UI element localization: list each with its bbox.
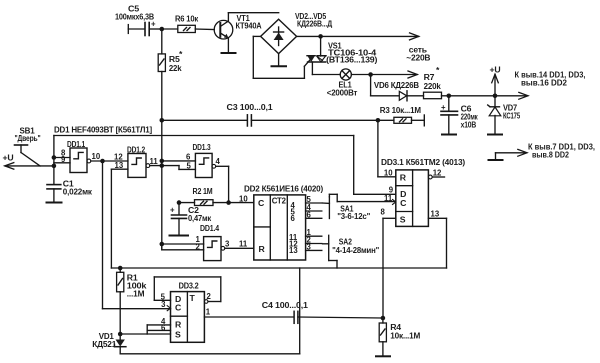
svg-text:DD3.2: DD3.2 (179, 281, 199, 291)
svg-text:(ВТ136...139): (ВТ136...139) (326, 55, 377, 65)
diode bridge VD2...VD5 (261, 11, 333, 54)
DD3.2 pin 1 output (204, 308, 293, 318)
svg-text:выв.16 DD2: выв.16 DD2 (521, 79, 568, 88)
wire: down to DD3.2 pin 3 (103, 161, 171, 309)
svg-text:DD3.1 К561ТМ2 (4013): DD3.1 К561ТМ2 (4013) (381, 157, 465, 167)
flip-flop DD3.1 (381, 157, 466, 226)
svg-text:DD1 HEF4093ВТ [К561ТЛ1]: DD1 HEF4093ВТ [К561ТЛ1] (54, 125, 152, 135)
svg-text:+: + (441, 103, 446, 112)
svg-text:220k: 220k (424, 81, 441, 91)
net label: К выв.7 DD1, DD3, выв.8 DD2 (528, 143, 595, 160)
capacitor C6 (441, 96, 478, 134)
svg-text:*: * (436, 65, 440, 75)
ground (C2) (170, 235, 189, 237)
ground (R4) (376, 355, 390, 357)
ground (VD7) (488, 134, 502, 136)
svg-text:10: 10 (384, 169, 393, 178)
node: C5/R6/R5 junction (160, 27, 165, 32)
wire DD1.1 out to DD1.2 (91, 160, 128, 162)
node: C4/R4/DD3.1-S junction (381, 316, 386, 321)
resistor R7 (424, 65, 449, 99)
capacitor C4 (262, 300, 383, 323)
gate DD1.1 (54, 139, 101, 173)
svg-text:*: * (179, 49, 183, 59)
node: R1 bottom / VD1 (118, 332, 123, 337)
capacitor C3 (162, 102, 378, 126)
wire R2 to DD2 C input (229, 202, 254, 204)
svg-text:C: C (400, 198, 407, 208)
wire: DD1.2 pin13 down to feedback line (110, 169, 112, 268)
svg-text:11: 11 (384, 194, 393, 203)
resistor R3 (378, 105, 424, 126)
svg-text:C: C (175, 303, 182, 313)
diode VD1 (92, 331, 126, 354)
svg-text:R: R (259, 244, 266, 254)
svg-text:КД226В...Д: КД226В...Д (297, 19, 333, 29)
svg-text:13: 13 (115, 161, 124, 170)
wire bridge right to mains arrow (297, 33, 419, 40)
wire DD1.3 out to R2 right (216, 166, 229, 202)
DD3.1 pin 12 output (428, 169, 444, 179)
resistor R2 (179, 186, 229, 206)
wire: bottom bus riser (120, 268, 300, 354)
gate DD1.4 (162, 223, 230, 261)
svg-text:11: 11 (239, 240, 248, 249)
svg-text:СТ2: СТ2 (272, 196, 286, 206)
triac VS1 (307, 36, 378, 74)
gate DD1.3 (186, 142, 221, 178)
svg-text:+: + (170, 206, 175, 215)
svg-text:"4-14-28мин": "4-14-28мин" (332, 245, 379, 255)
svg-text:КД521: КД521 (92, 339, 116, 349)
svg-text:+U: +U (490, 65, 501, 75)
DD2 output stubs (306, 195, 322, 251)
wire DD1.2 out to DD1.3 (150, 161, 196, 170)
capacitor C1 (47, 166, 93, 202)
svg-text:"3-6-12с": "3-6-12с" (337, 211, 370, 221)
svg-text:3: 3 (225, 240, 230, 249)
node: C3/R3/DD3.1-R junction (376, 118, 381, 123)
wire R1 node to DD3.2 R/S (120, 317, 170, 334)
svg-text:С4 100...0,1: С4 100...0,1 (262, 300, 308, 310)
svg-text:6: 6 (186, 153, 191, 162)
svg-text:8: 8 (381, 208, 386, 217)
node: +U junction (493, 94, 498, 99)
node: bridge/triac junction (318, 34, 323, 39)
+U supply arrow (490, 65, 501, 96)
svg-text:10к...1М: 10к...1М (390, 331, 420, 341)
gate DD1.2 (111, 145, 158, 178)
DD3.2 D feedback loop (hat) (154, 277, 221, 303)
svg-text:13: 13 (289, 246, 298, 255)
ground (C6) (442, 134, 456, 136)
capacitor C2 (170, 203, 212, 235)
node: DD1.4 input junction (160, 242, 165, 247)
svg-text:1: 1 (206, 308, 211, 317)
DD3.1 pin 8 S wire (383, 218, 396, 318)
flip-flop DD3.2 (161, 281, 205, 343)
svg-text:0,47мк: 0,47мк (188, 213, 212, 223)
svg-text:6: 6 (291, 214, 296, 223)
wire R7 node to +U node and arrow (449, 92, 528, 99)
svg-text:3: 3 (307, 242, 312, 251)
capacitor C5 (115, 4, 162, 36)
switch SB1 "Дверь" (3, 126, 54, 170)
svg-text:6: 6 (307, 210, 312, 219)
ground (bridge bottom) (272, 54, 287, 67)
svg-text:<2000Вт: <2000Вт (327, 88, 358, 98)
svg-text:DD2 К561ИЕ16 (4020): DD2 К561ИЕ16 (4020) (244, 184, 323, 194)
resistor R1 (117, 268, 147, 334)
svg-text:DD1.2: DD1.2 (127, 145, 145, 155)
net label: К выв.14 DD1, DD3, выв.16 DD2 (515, 71, 586, 88)
svg-text:S: S (400, 215, 406, 225)
node: R2 right junction (226, 200, 231, 205)
node: DD1.1 out / DD3.2 C tap (100, 159, 105, 164)
node: R1 top (118, 266, 123, 271)
svg-text:6: 6 (161, 323, 166, 332)
svg-text:3: 3 (161, 300, 166, 309)
diode VD6 (371, 75, 424, 101)
svg-text:2: 2 (196, 243, 201, 252)
resistor R6 (162, 14, 215, 33)
svg-text:5: 5 (187, 161, 192, 170)
wire C3 node to DD3.1 pin 10 (378, 120, 396, 177)
svg-text:DD1.1: DD1.1 (67, 139, 85, 149)
svg-text:"Дверь": "Дверь" (15, 133, 41, 143)
ground (C1) (47, 202, 62, 204)
node: R5 line crossings (160, 159, 165, 168)
resistor R4 (379, 318, 420, 355)
svg-text:100мкх6,3В: 100мкх6,3В (115, 12, 154, 22)
counter DD2 К561ИЕ16 (239, 184, 323, 261)
node: SB1/C1/DD1.1 junction (52, 155, 57, 168)
svg-text:4: 4 (216, 157, 221, 166)
svg-text:9: 9 (61, 155, 66, 164)
common terminal to DD supply pins (489, 149, 528, 160)
resistor R5 (158, 29, 183, 120)
svg-text:C: C (258, 198, 265, 208)
svg-text:...1М: ...1М (127, 289, 145, 299)
svg-text:х10В: х10В (461, 120, 477, 130)
svg-text:R: R (175, 320, 182, 330)
svg-text:12: 12 (433, 169, 442, 178)
wire: SB1 node up to top rail and to DD3.1 D (54, 136, 396, 195)
svg-text:0,022мк: 0,022мк (63, 187, 93, 197)
switch SA1 (323, 194, 396, 221)
wire: R5 line down to DD1.4 (161, 120, 163, 250)
svg-text:T: T (190, 293, 196, 303)
feedback line (long horizontal) (111, 267, 446, 269)
node: R2 left junction (177, 200, 182, 205)
svg-text:R3 10к...1М: R3 10к...1М (380, 105, 421, 115)
svg-text:2: 2 (207, 292, 212, 301)
svg-text:R2 1М: R2 1М (193, 186, 213, 196)
svg-text:13: 13 (431, 210, 440, 219)
svg-text:10: 10 (92, 152, 101, 161)
svg-text:+: + (151, 20, 156, 29)
svg-text:КС175: КС175 (503, 111, 520, 121)
svg-text:11: 11 (150, 157, 159, 166)
switch SA2 (323, 235, 380, 268)
svg-text:VD6 КД226В: VD6 КД226В (374, 80, 419, 90)
wire bridge left to triac gate (253, 36, 309, 78)
svg-text:R6 10к: R6 10к (175, 14, 199, 24)
transistor VT1 (214, 13, 279, 53)
svg-text:~220В: ~220В (406, 53, 430, 63)
svg-text:S: S (175, 329, 181, 339)
svg-text:DD1.4: DD1.4 (200, 223, 219, 233)
svg-text:R: R (400, 173, 407, 183)
net label: сеть ~220В (406, 45, 430, 63)
lamp EL1 (312, 69, 417, 98)
node: lamp/VD6 junction (368, 72, 373, 77)
svg-text:+U: +U (3, 153, 14, 163)
svg-text:выв.8 DD2: выв.8 DD2 (532, 151, 570, 160)
svg-text:С3 100...0,1: С3 100...0,1 (227, 102, 273, 112)
DD3.1 pin 13 Q wire (428, 210, 446, 269)
svg-text:22k: 22k (169, 63, 182, 73)
node: R5/C3 junction (160, 118, 165, 123)
node: R7/C6 junction (447, 94, 452, 99)
svg-text:10: 10 (239, 195, 248, 204)
zener VD7 (488, 96, 521, 134)
svg-text:КТ940А: КТ940А (236, 21, 263, 31)
svg-text:DD1.3: DD1.3 (193, 142, 211, 152)
ground (VT1 emitter) (222, 52, 236, 54)
wire DD1.4 out to DD2 R (225, 247, 254, 249)
